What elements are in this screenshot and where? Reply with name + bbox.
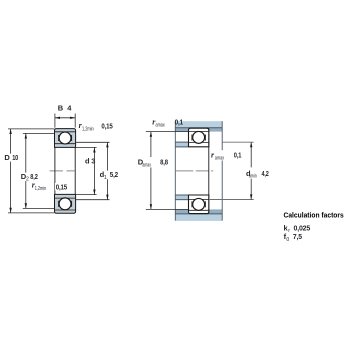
svg-text:0,1: 0,1	[175, 118, 183, 127]
label ra max = 0,1 (housing fillet, top)	[152, 118, 183, 129]
svg-text:5,2: 5,2	[110, 170, 118, 179]
svg-text:D: D	[4, 153, 10, 162]
svg-text:amax: amax	[142, 162, 151, 168]
shaft shoulder lower (right mounting view)	[175, 195, 188, 200]
svg-text:1: 1	[104, 175, 107, 181]
housing section lower band (right mounting view)	[175, 209, 222, 221]
shaft/housing cut edge (left boundary, right view)	[174, 121, 176, 220]
upper bearing ring section (right view)	[189, 128, 209, 147]
dimension B = 4 (width)	[55, 104, 75, 128]
bearing right side face line (right view)	[208, 128, 210, 213]
svg-text:amax: amax	[156, 122, 165, 128]
svg-text:7,5: 7,5	[293, 232, 302, 241]
shaft shoulder upper (right mounting view)	[175, 142, 188, 147]
dimension D2 = 8,2 (shoulder diameter)	[20, 133, 55, 208]
dimension d1 = 5,2 (inner ring shoulder diameter)	[76, 142, 121, 199]
lower ball (left view)	[59, 198, 71, 210]
heading: Calculation factors	[284, 210, 344, 219]
upper ball (left view)	[59, 132, 71, 144]
axis centerline (right mounting view)	[175, 170, 213, 172]
svg-text:amax: amax	[215, 155, 224, 161]
lower bearing ring section (right view)	[189, 195, 209, 214]
label r1,2 min = 0,15 (upper, outer ring corner radius)	[79, 121, 113, 132]
housing section upper band (right mounting view)	[175, 121, 222, 131]
svg-text:2: 2	[26, 177, 29, 183]
housing shoulder face line (right view)	[221, 121, 223, 220]
svg-text:r: r	[288, 228, 290, 234]
svg-text:d 3: d 3	[85, 156, 95, 165]
bearing side face lines (left view)	[55, 147, 75, 195]
dimension Da max = 8,8 (housing abutment diameter)	[138, 132, 189, 210]
factor f0 = 7,5	[284, 232, 302, 243]
label r1,2 min = 0,15 (lower, inner ring corner radius)	[32, 180, 70, 192]
svg-text:10: 10	[12, 153, 18, 162]
factor kr = 0,025	[284, 224, 311, 235]
svg-text:0,15: 0,15	[56, 182, 67, 191]
svg-text:0,15: 0,15	[101, 122, 112, 131]
axis centerline (left section view)	[50, 170, 77, 172]
svg-text:1,2min: 1,2min	[35, 186, 47, 192]
dimension D = 10 (outer diameter)	[3, 129, 54, 213]
svg-text:Calculation factors: Calculation factors	[284, 210, 344, 219]
lower ring cross-section (left view)	[55, 194, 76, 213]
label ra max = 0,1 (shaft fillet, middle)	[211, 151, 241, 162]
lower ball (right view)	[193, 198, 205, 210]
svg-text:4,2: 4,2	[262, 169, 269, 178]
upper ring cross-section (left view)	[55, 129, 76, 148]
svg-text:1,2min: 1,2min	[82, 127, 94, 133]
svg-text:0: 0	[286, 237, 289, 243]
svg-text:0,025: 0,025	[294, 224, 311, 233]
svg-text:0,1: 0,1	[234, 151, 242, 160]
svg-text:amin: amin	[249, 174, 257, 180]
dimension d = 3 (bore diameter)	[76, 147, 97, 194]
svg-text:8,8: 8,8	[160, 158, 168, 167]
svg-text:B: B	[58, 104, 64, 113]
dimension da min = 4,2 (shaft abutment diameter)	[210, 142, 269, 199]
upper ball (right view)	[193, 131, 205, 143]
